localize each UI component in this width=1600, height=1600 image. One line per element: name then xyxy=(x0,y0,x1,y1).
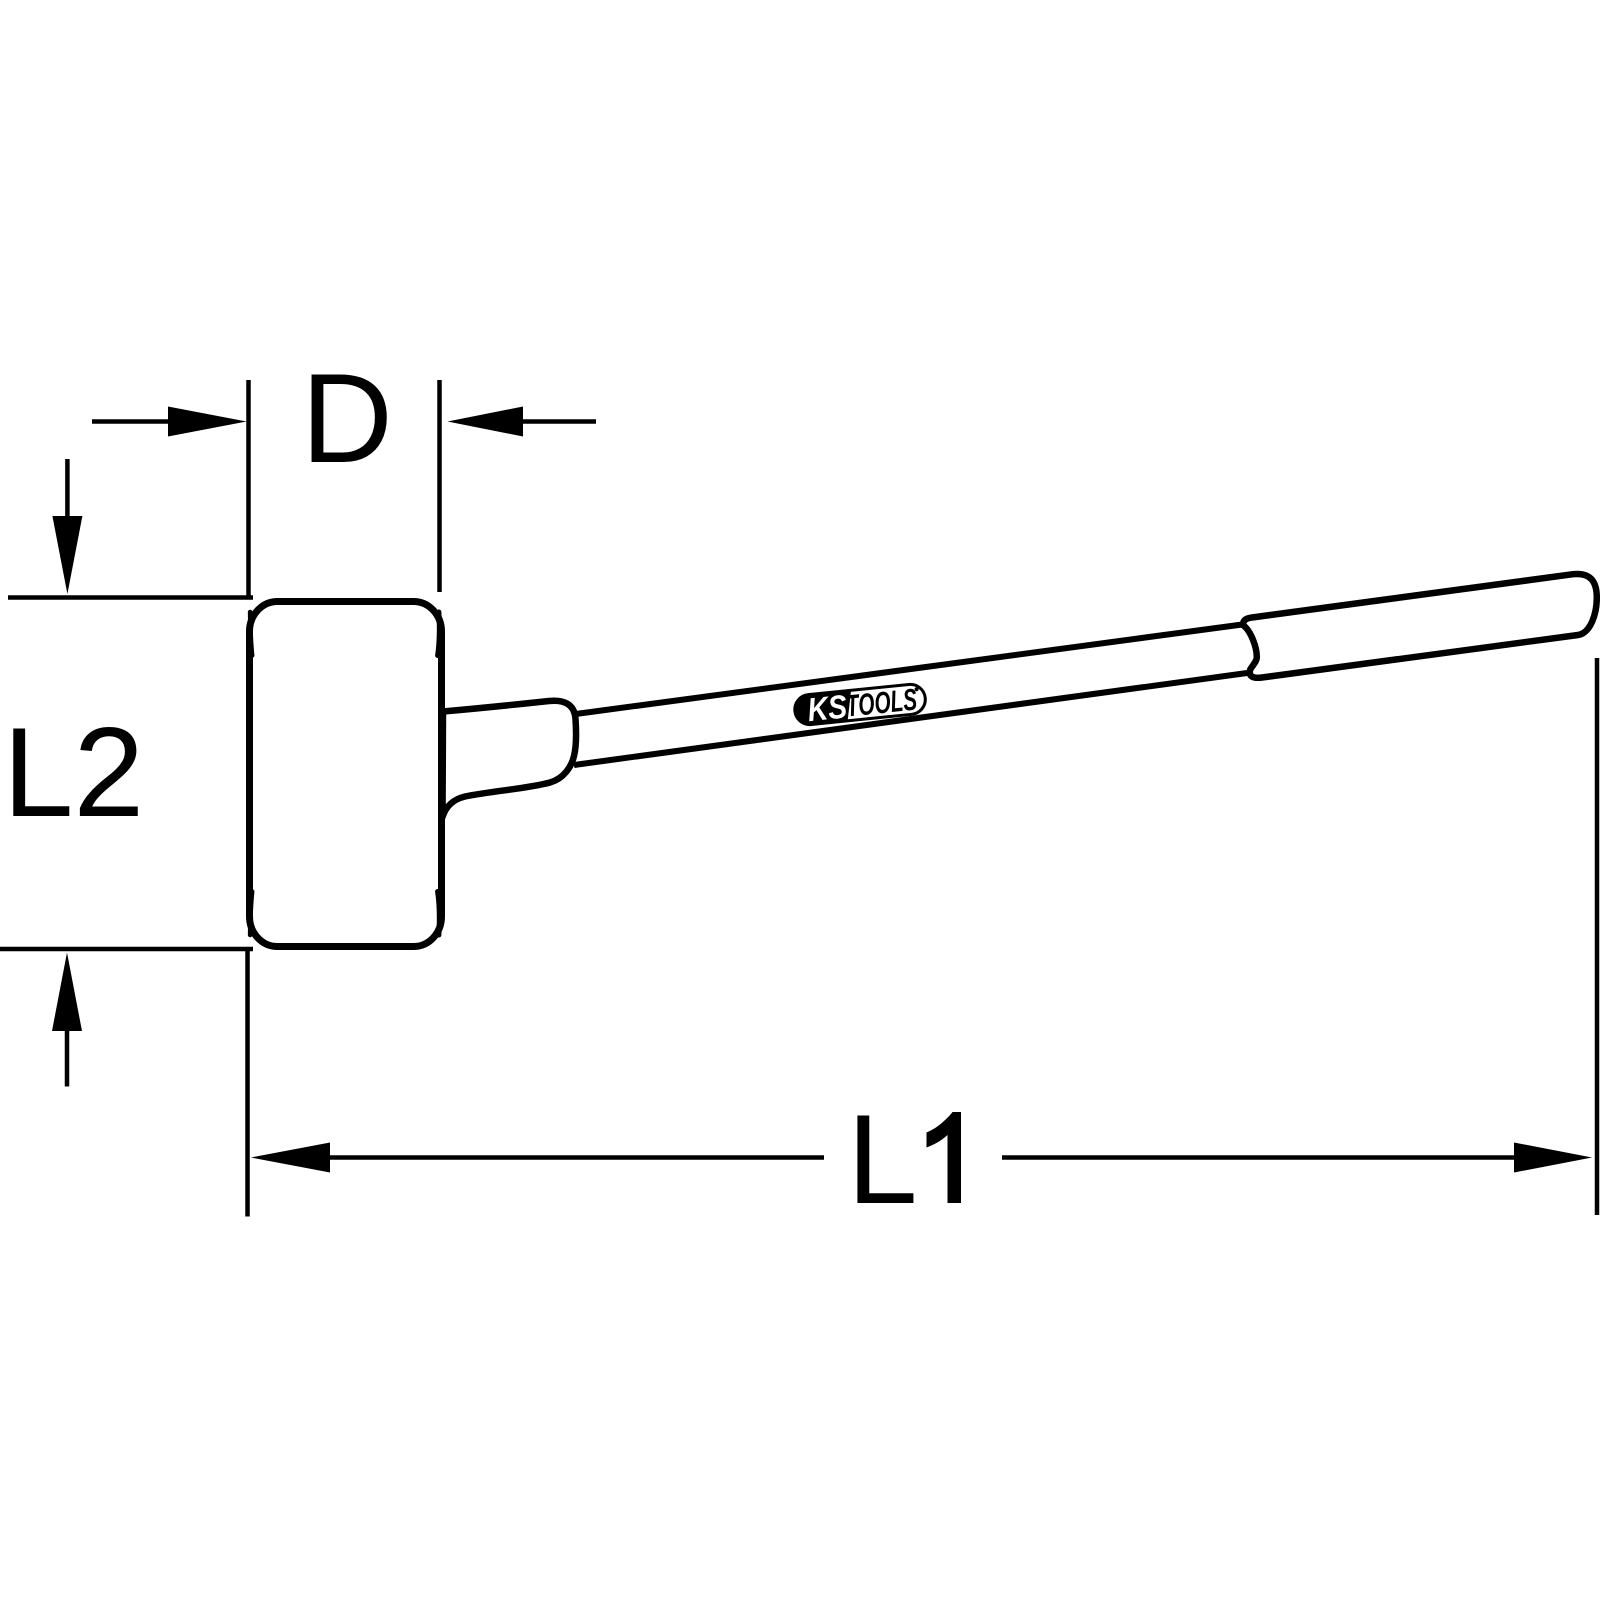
svg-text:L: L xyxy=(847,1088,918,1230)
D arrow left (pointing right) xyxy=(168,407,247,437)
L1 dimension line right xyxy=(1002,1155,1516,1160)
L1 extension line right xyxy=(1595,658,1600,1215)
handle shaft top line xyxy=(572,624,1246,715)
collar xyxy=(443,701,577,817)
L2 arrow up shaft xyxy=(65,1029,70,1087)
D extension line left xyxy=(246,380,251,599)
KS TOOLS logo xyxy=(793,679,927,730)
L1 arrow left (pointing left) xyxy=(251,1143,330,1173)
svg-text:TOOLS: TOOLS xyxy=(844,681,919,723)
svg-text:L2: L2 xyxy=(3,701,144,843)
L2 bottom line xyxy=(0,947,253,952)
L2 arrow down head xyxy=(52,516,82,594)
hammer head xyxy=(250,602,442,947)
svg-text:D: D xyxy=(301,347,393,489)
D arrow right (pointing left) xyxy=(448,407,524,437)
head face arc top-left xyxy=(250,612,252,656)
D extension line right xyxy=(437,380,442,592)
L1 arrow right (pointing right) xyxy=(1514,1143,1592,1173)
D dimension line right xyxy=(521,419,596,424)
handle shaft bottom line xyxy=(574,672,1258,766)
head face arc bottom-right xyxy=(438,892,440,936)
L2 top line xyxy=(8,595,253,600)
head face arc top-right xyxy=(438,612,440,656)
L2 arrow down shaft xyxy=(65,459,70,523)
handle grip xyxy=(1243,574,1597,678)
head face arc bottom-left xyxy=(250,892,252,936)
L1 extension line left xyxy=(245,950,250,1217)
L1 dimension line left xyxy=(328,1155,824,1160)
D dimension line left xyxy=(92,419,172,424)
svg-text:KS: KS xyxy=(806,687,849,728)
L2 arrow up head xyxy=(52,953,82,1032)
